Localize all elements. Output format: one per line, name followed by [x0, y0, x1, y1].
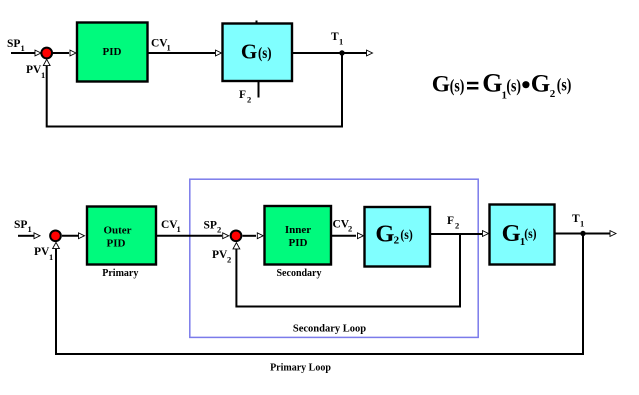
svg-text:2: 2 — [394, 235, 400, 247]
svg-text:1: 1 — [339, 37, 343, 47]
svg-text:PID: PID — [289, 237, 308, 249]
svg-text:2: 2 — [348, 224, 352, 234]
svg-text:G: G — [241, 39, 257, 63]
svg-text:2: 2 — [247, 95, 251, 105]
svg-text:(s): (s) — [450, 76, 465, 96]
svg-text:Outer: Outer — [103, 224, 131, 236]
svg-text:PV: PV — [26, 64, 42, 76]
svg-text:G: G — [482, 68, 502, 97]
svg-text:1: 1 — [580, 219, 584, 229]
svg-text:1: 1 — [49, 252, 53, 262]
svg-text:(s): (s) — [506, 76, 521, 96]
svg-text:SP: SP — [14, 219, 27, 231]
svg-text:F: F — [239, 89, 246, 101]
svg-text:2: 2 — [227, 255, 231, 265]
svg-text:1: 1 — [28, 224, 32, 234]
svg-text:(s): (s) — [400, 228, 413, 243]
svg-text:SP: SP — [7, 38, 20, 50]
svg-text:1: 1 — [177, 224, 181, 234]
svg-text:Primary: Primary — [102, 268, 138, 279]
svg-text:2: 2 — [550, 88, 556, 100]
svg-text:Secondary: Secondary — [277, 268, 322, 279]
svg-text:(s): (s) — [524, 227, 537, 242]
svg-text:F: F — [447, 215, 454, 227]
svg-text:PV: PV — [34, 246, 50, 258]
svg-text:G: G — [432, 71, 450, 97]
svg-text:1: 1 — [21, 43, 25, 53]
svg-text:Primary Loop: Primary Loop — [270, 363, 331, 374]
svg-text:1: 1 — [167, 43, 171, 53]
svg-text:PID: PID — [103, 46, 122, 58]
svg-text:Secondary Loop: Secondary Loop — [293, 324, 366, 335]
svg-text:G: G — [502, 220, 521, 247]
svg-text:(s): (s) — [258, 45, 272, 62]
svg-text:T: T — [331, 31, 339, 43]
svg-text:SP: SP — [204, 220, 217, 232]
svg-text:PV: PV — [212, 249, 228, 261]
svg-text:2: 2 — [455, 221, 459, 231]
svg-text:1: 1 — [41, 70, 45, 80]
svg-text:PID: PID — [107, 237, 126, 249]
svg-text:Inner: Inner — [285, 224, 311, 236]
svg-text:2: 2 — [217, 225, 221, 235]
svg-text:G: G — [531, 70, 550, 97]
svg-text:(s): (s) — [557, 74, 572, 94]
svg-text:T: T — [572, 213, 580, 225]
svg-text:G: G — [375, 221, 394, 248]
